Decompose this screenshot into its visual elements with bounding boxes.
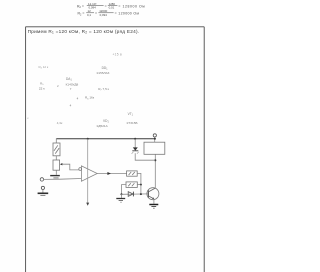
transistor VT1 circle [147, 188, 159, 200]
svg-text:R5: R5 [40, 81, 44, 86]
wire R6 left to vertical [122, 185, 127, 195]
wire X2 down to ground G2 [42, 190, 44, 193]
resistor R6 [126, 182, 137, 188]
svg-text:=: = [105, 4, 107, 8]
output direction arrow [107, 172, 111, 175]
wiper wire to inverting input [63, 164, 79, 170]
svg-text:4,3к: 4,3к [57, 121, 63, 125]
junction dot rail/crossing wire [87, 138, 89, 140]
svg-text:= 128000 Ом: = 128000 Ом [118, 4, 145, 8]
svg-text:= 120000 Ом: = 120000 Ом [115, 12, 140, 16]
ground G3 stem [121, 194, 123, 198]
junction dot rail/VD2 [134, 138, 136, 140]
svg-text:VT1: VT1 [128, 112, 134, 117]
wire VD2 down and right to collector line [135, 153, 155, 160]
svg-text:КД521А: КД521А [97, 124, 109, 128]
svg-text:0,1: 0,1 [87, 13, 91, 17]
frame top border [26, 26, 205, 28]
relay K1 box [144, 142, 165, 154]
wire rail down to VD2 [134, 139, 136, 148]
svg-text:DA1: DA1 [66, 77, 72, 82]
resistor R4 [53, 143, 60, 156]
equation line 1: Rx = frac = frac = 128000 Om [77, 2, 145, 10]
svg-text:+15 в: +15 в [113, 53, 123, 57]
junction dot collector/flyback [154, 159, 156, 161]
svg-text:Примем R1 =120 кОм, R2 = 120 к: Примем R1 =120 кОм, R2 = 120 кОм (ряд Е2… [28, 29, 140, 35]
VT1 base bar [147, 190, 149, 197]
wire rail corner down to R4 [55, 138, 57, 143]
diode VD1 [128, 192, 133, 197]
collector wire up [154, 154, 156, 188]
svg-text:4: 4 [77, 97, 79, 101]
svg-text:К155ЛА3: К155ЛА3 [97, 71, 110, 75]
op-amp output wire [97, 172, 126, 174]
svg-text:4: 4 [70, 104, 72, 108]
equation line 2: Rx = frac = frac = 120000 Om [78, 9, 140, 17]
ground G3 [116, 198, 125, 200]
svg-text:22 к: 22 к [39, 86, 45, 90]
bus vertical to base row [140, 185, 142, 195]
svg-text:К140УД8: К140УД8 [66, 82, 79, 86]
junction dot bus/base [140, 193, 142, 195]
supply terminal circle [153, 134, 156, 137]
svg-text:R7 7,5 к: R7 7,5 к [98, 87, 109, 92]
junction dot bus/R6 [140, 184, 142, 186]
VT1 collector stroke [148, 188, 155, 192]
junction dot left VD1 [120, 193, 122, 195]
wire X1 to non-inverting input [44, 178, 82, 181]
crossing vertical wire with down arrow [87, 139, 89, 203]
terminal X2 [41, 186, 44, 189]
input terminal X1 [40, 178, 43, 181]
wire relay top to rail [154, 137, 156, 142]
svg-text:0,094: 0,094 [100, 13, 108, 17]
svg-text:R4 12 к: R4 12 к [39, 65, 49, 70]
emitter wire down [153, 199, 155, 204]
svg-text:к: к [27, 116, 29, 120]
flyback diode VD2 (cathode up) [133, 147, 138, 150]
svg-text:КТ315Б: КТ315Б [127, 121, 138, 125]
svg-text:R6 16к: R6 16к [85, 96, 95, 101]
wire R4 to R5 [55, 156, 57, 160]
ground G4 [149, 204, 158, 206]
frame right border [203, 27, 205, 272]
svg-text:DD1: DD1 [102, 66, 109, 71]
wire R6 right to bus [137, 184, 141, 186]
ground G2 [38, 192, 49, 194]
wire R7 to bus [137, 173, 141, 184]
junction dot rail/relay [154, 138, 156, 140]
resistor R7 [127, 171, 138, 176]
svg-text:=: = [95, 12, 97, 16]
op-amp DA1 triangle [81, 166, 97, 181]
svg-text:0,01: 0,01 [109, 6, 115, 10]
svg-text:7: 7 [70, 87, 72, 91]
VT1 emitter stroke with arrow [148, 196, 154, 199]
svg-text:R2 =: R2 = [78, 12, 85, 17]
diode VD1 row wire [122, 193, 149, 195]
svg-text:R2 =: R2 = [77, 4, 84, 9]
inverting input bubble [79, 168, 82, 171]
ground G1 under R5 [55, 170, 57, 175]
frame left border [25, 27, 27, 272]
svg-text:2: 2 [57, 84, 59, 88]
trimmer wiper arrow [60, 163, 63, 165]
resistor R5 (trimmer) [53, 160, 60, 170]
wire +15V rail [56, 138, 155, 140]
